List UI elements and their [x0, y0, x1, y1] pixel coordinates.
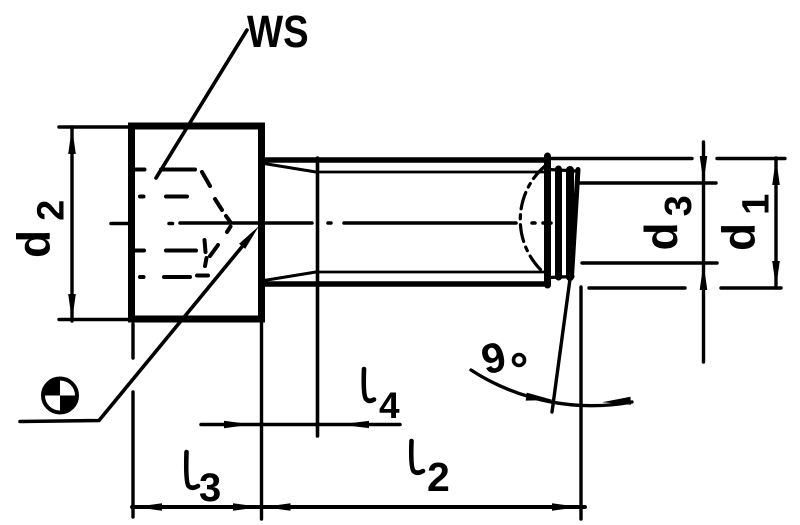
svg-text:4: 4	[379, 385, 400, 426]
svg-text:WS: WS	[247, 6, 309, 57]
svg-text:3: 3	[199, 466, 221, 510]
svg-text:2: 2	[427, 454, 450, 500]
